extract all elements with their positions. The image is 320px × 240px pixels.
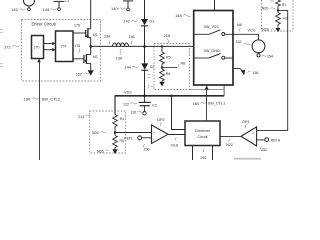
label 172 <box>4 45 20 50</box>
block 174 <box>56 31 74 62</box>
dashed box 216 <box>154 44 190 90</box>
svg-text:146: 146 <box>11 7 18 12</box>
svg-text:174: 174 <box>61 45 67 49</box>
svg-text:+: + <box>153 131 155 135</box>
terminal 144 <box>54 1 65 10</box>
svg-text:214: 214 <box>78 115 84 119</box>
label 138 lead <box>148 85 149 89</box>
label 252 <box>260 147 267 153</box>
label 180 lead <box>79 49 80 54</box>
label 122 <box>123 102 137 106</box>
M2 source wire <box>90 63 92 70</box>
label 148 <box>175 13 191 18</box>
switch node junction <box>89 45 92 48</box>
feed wire into switch box top <box>214 0 216 11</box>
feedback wire N20 to OP1 <box>257 10 288 130</box>
wire arrow 170 to 174 (upper) <box>44 42 56 46</box>
capacitor C2 <box>139 96 151 112</box>
switch SW_GND <box>194 54 233 60</box>
label N18 <box>171 137 178 147</box>
VCC wire <box>233 34 259 40</box>
wire R4 to R5 <box>114 128 116 136</box>
svg-text:REFL: REFL <box>124 137 133 141</box>
svg-text:M1: M1 <box>93 33 98 37</box>
svg-text:250: 250 <box>144 148 150 152</box>
svg-text:SW_GND: SW_GND <box>204 49 221 53</box>
svg-text:N05: N05 <box>97 149 104 153</box>
M2 drain wire <box>90 46 92 54</box>
svg-text:152: 152 <box>236 40 242 44</box>
resistor R2 <box>276 13 281 25</box>
REFL input wire <box>142 137 152 139</box>
svg-text:SW_CTL2: SW_CTL2 <box>42 96 61 101</box>
combiner output wire 1 <box>192 146 194 161</box>
inductor 130 <box>113 43 129 46</box>
junction VSS diode branch <box>143 94 146 97</box>
svg-text:252: 252 <box>261 148 267 152</box>
svg-text:R6: R6 <box>166 72 171 76</box>
label 156 <box>248 71 259 75</box>
nmos M2 <box>73 54 91 64</box>
block 170 <box>32 36 44 59</box>
source circle 152 <box>252 40 265 53</box>
voltage source V1 (146) <box>24 0 35 11</box>
svg-text:154: 154 <box>267 55 273 59</box>
svg-text:Combiner: Combiner <box>195 129 211 133</box>
svg-text:166: 166 <box>24 97 31 102</box>
diode branch wire lower <box>144 70 146 96</box>
REFL terminal <box>138 136 142 140</box>
svg-text:C1: C1 <box>66 0 70 3</box>
step wire <box>223 85 225 96</box>
wire R1 to R2 <box>277 8 279 13</box>
svg-text:172: 172 <box>4 45 11 50</box>
label 146 <box>11 7 26 12</box>
combiner output wire 2 <box>212 146 214 161</box>
M1 drain wire <box>90 0 92 29</box>
label N20 <box>262 7 276 11</box>
top smudge <box>270 0 274 2</box>
label 214 <box>78 115 90 119</box>
svg-text:136: 136 <box>129 35 135 39</box>
svg-text:R5: R5 <box>120 139 124 143</box>
svg-text:REFH: REFH <box>271 138 281 142</box>
wire arrow 170 to 174 (lower) <box>44 48 56 52</box>
SW_CTL1 arrow into switch box <box>205 85 209 90</box>
svg-text:R5: R5 <box>166 56 171 60</box>
ground arrow R2 <box>276 25 281 33</box>
svg-text:162: 162 <box>76 73 82 77</box>
terminal 140 <box>123 1 133 11</box>
svg-text:SW_CTL1: SW_CTL1 <box>208 102 226 106</box>
combiner box <box>185 121 220 146</box>
VSS branch wire to combiner <box>172 96 186 130</box>
resistor R1 <box>276 0 281 8</box>
label 134 node <box>104 35 111 45</box>
svg-text:140: 140 <box>111 6 118 11</box>
label 126 <box>131 111 143 115</box>
op-amp OP1 <box>241 127 257 146</box>
label 130 <box>116 49 123 61</box>
switch SW_VCC <box>194 30 233 36</box>
ground for M2 <box>88 70 94 75</box>
REFH terminal <box>265 138 269 142</box>
ground divider <box>159 82 164 87</box>
junction N6 <box>161 66 163 68</box>
svg-text:D1: D1 <box>150 20 155 24</box>
left edge smudge <box>0 29 3 33</box>
svg-text:Circuit: Circuit <box>198 135 208 139</box>
label 190 <box>200 149 206 161</box>
svg-text:M2: M2 <box>93 55 98 59</box>
junction N20 <box>277 9 279 11</box>
svg-text:R2: R2 <box>283 16 288 20</box>
label 216 <box>164 33 171 43</box>
svg-text:R1: R1 <box>282 3 286 7</box>
svg-text:N22: N22 <box>226 143 233 147</box>
label 136 node <box>129 35 135 45</box>
svg-text:OP1: OP1 <box>242 120 250 124</box>
left edge smudge 2 <box>0 63 3 67</box>
svg-text:N6: N6 <box>181 62 186 66</box>
op-amp OP2 <box>152 125 169 144</box>
svg-text:N28: N28 <box>262 28 269 32</box>
terminal below C2 <box>143 112 146 115</box>
label 144b <box>125 65 139 69</box>
label 162 <box>76 73 90 77</box>
svg-text:N8: N8 <box>237 23 242 27</box>
svg-text:144: 144 <box>125 65 131 69</box>
label 146b lead <box>147 74 151 78</box>
svg-text:190: 190 <box>200 156 206 160</box>
svg-text:144: 144 <box>43 7 50 12</box>
diode D2 <box>141 63 148 70</box>
label OP1 <box>242 120 250 128</box>
diode D1 <box>141 19 148 26</box>
svg-text:130: 130 <box>116 56 123 61</box>
label 162b lead <box>151 85 155 88</box>
resistor R5 lower <box>113 136 118 148</box>
svg-text:216: 216 <box>164 33 171 38</box>
label 250 <box>143 144 149 152</box>
ground lower divider <box>112 148 117 155</box>
SW_CTL2 arrow into 170 <box>37 59 41 62</box>
label OP2 <box>157 118 165 126</box>
dashed box 218 <box>262 0 294 31</box>
label N22 <box>226 139 233 147</box>
junction N04 <box>114 131 117 134</box>
label 142 <box>124 20 138 24</box>
svg-text:178: 178 <box>75 44 81 48</box>
node wire to switch box <box>91 45 194 47</box>
svg-text:R4: R4 <box>120 117 124 121</box>
label 184 SW_CTL1 <box>193 102 226 107</box>
bottom faint smudge <box>234 158 261 160</box>
svg-text:N18: N18 <box>171 143 178 147</box>
label 140 <box>111 6 125 11</box>
svg-text:122: 122 <box>123 102 129 106</box>
SW_CTL1 wire <box>206 90 208 121</box>
svg-text:SW_VCC: SW_VCC <box>204 25 220 29</box>
resistor R5 <box>160 46 165 67</box>
svg-text:134: 134 <box>104 35 110 39</box>
M1 source wire <box>90 38 92 47</box>
nmos M1 <box>73 28 91 38</box>
label N8 <box>237 23 242 32</box>
svg-text:126: 126 <box>131 111 137 115</box>
svg-text:N04: N04 <box>92 131 99 135</box>
label 152 <box>236 40 251 45</box>
VSS rail <box>115 95 224 97</box>
REFH input wire <box>257 139 265 141</box>
svg-text:142: 142 <box>124 20 130 24</box>
chassis ground stub <box>233 69 245 76</box>
label 154 <box>262 55 274 59</box>
svg-text:Driver Circuit: Driver Circuit <box>32 21 57 26</box>
svg-text:184: 184 <box>193 102 199 106</box>
N6 tap wire <box>162 64 179 68</box>
label N28 <box>262 28 274 32</box>
wire A below switch box <box>190 88 224 90</box>
junction node line / diode <box>143 45 146 48</box>
label N05 <box>97 149 109 153</box>
wire N04 to OP2 plus <box>115 132 152 134</box>
svg-text:148: 148 <box>175 13 182 18</box>
resistor R6 <box>160 68 165 82</box>
VSS left drop wire <box>114 96 116 115</box>
svg-text:VCC: VCC <box>248 29 256 33</box>
label 144 <box>43 0 70 12</box>
dashed box 214 <box>90 111 126 153</box>
svg-text:156: 156 <box>253 71 259 75</box>
svg-text:N20: N20 <box>262 7 269 11</box>
driver circuit dashed box <box>22 20 101 82</box>
OP2 output wire <box>168 134 185 136</box>
OP1 output wire <box>220 135 241 137</box>
svg-text:170: 170 <box>34 46 40 50</box>
svg-text:+: + <box>252 131 254 135</box>
svg-text:C2: C2 <box>152 104 157 108</box>
diode branch wire middle <box>144 26 146 64</box>
junction VSS branch <box>170 95 173 98</box>
label Combiner Circuit <box>195 129 211 139</box>
junction divider top <box>161 45 163 47</box>
svg-text:176: 176 <box>74 24 80 28</box>
diode branch wire upper <box>144 0 146 19</box>
junction SW_CTL1 <box>206 88 208 90</box>
switch circuit box 148 <box>194 11 233 86</box>
svg-text:VSS: VSS <box>124 91 132 95</box>
resistor R4 <box>113 115 118 129</box>
node 154 terminal <box>257 53 260 57</box>
label N04 <box>92 131 106 135</box>
SW_CTL2 wire <box>39 62 41 161</box>
svg-text:OP2: OP2 <box>157 118 165 122</box>
label 166 SW_CTL2 <box>24 96 61 101</box>
